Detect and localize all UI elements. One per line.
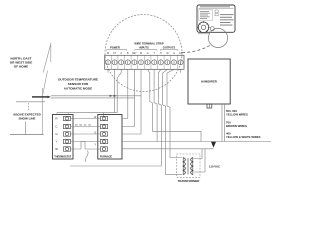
wire thermostat R to furnace R xyxy=(71,118,101,120)
svg-text:Y: Y xyxy=(55,140,57,144)
wire arrow on sensor bus xyxy=(110,95,114,97)
wire arrow on sensor bus 2 xyxy=(114,95,118,97)
wire bundle 4 to transformer bottom lead xyxy=(163,69,182,174)
svg-text:SNOW LINE: SNOW LINE xyxy=(19,116,36,120)
bracket OUTPUTS group xyxy=(160,50,178,51)
wire sensor bus 2 xyxy=(51,97,135,99)
device title text xyxy=(200,6,230,7)
wire terminal W6 to furnace G row xyxy=(122,69,141,134)
svg-text:INPUTS: INPUTS xyxy=(139,45,149,49)
device knob xyxy=(198,22,209,33)
wire sensor riser B xyxy=(117,69,121,112)
svg-text:110 VAC: 110 VAC xyxy=(209,165,220,169)
thermostat terminals xyxy=(64,116,71,151)
svg-text:YELLOW & WHITE WIRES: YELLOW & WHITE WIRES xyxy=(226,135,261,139)
wire sensor riser A xyxy=(114,69,116,112)
wire 400 yellow-white bus xyxy=(122,141,271,143)
wire bundle 2 drop to 400 bus xyxy=(154,69,157,141)
furnace box xyxy=(98,115,122,160)
node label NORTH EAST OR WEST SIDE OF HOME xyxy=(10,57,33,69)
svg-text:BROWN WIRES: BROWN WIRES xyxy=(226,124,247,128)
svg-text:OF HOME: OF HOME xyxy=(14,65,28,69)
terminal screw slots xyxy=(108,61,181,64)
wire furnace W row xyxy=(122,148,170,150)
svg-text:POWER: POWER xyxy=(110,45,120,49)
device title underline xyxy=(199,8,234,10)
device knob label xyxy=(198,32,209,35)
device right text block xyxy=(220,14,234,25)
snow line leader xyxy=(25,122,27,135)
wire terminal B to furnace R row xyxy=(122,69,128,118)
wire thermostat W crossing to furnace Y xyxy=(71,142,101,150)
terminal strip body xyxy=(105,55,184,69)
wire terminal KEY to furnace C row xyxy=(122,69,134,126)
detail source circle on device xyxy=(208,28,227,47)
svg-text:SENSOR FOR: SENSOR FOR xyxy=(68,82,89,86)
terminal screws xyxy=(106,60,184,65)
wire thermostat G to furnace G xyxy=(71,133,101,135)
transformer core xyxy=(186,158,188,174)
device left text block xyxy=(199,10,213,21)
svg-text:G: G xyxy=(173,53,175,55)
wire thermostat bottom hook xyxy=(86,151,89,163)
svg-text:WIRE TERMINAL STRIP: WIRE TERMINAL STRIP xyxy=(134,42,163,46)
furnace terminal letters xyxy=(94,115,96,146)
snow line upper leader xyxy=(28,103,30,111)
device small button xyxy=(210,27,214,31)
thermostat terminal letters xyxy=(55,117,58,152)
wire sensor bus 1 xyxy=(51,95,141,97)
humidifier drain nub xyxy=(207,104,212,108)
node label 700 BROWN WIRES xyxy=(226,121,247,129)
svg-text:THERMOSTAT: THERMOSTAT xyxy=(54,155,71,158)
node label ABOVE EXPECTED SNOW LINE xyxy=(13,112,42,120)
outdoor temperature sensor xyxy=(32,96,48,98)
svg-text:HUMIDIFIER: HUMIDIFIER xyxy=(201,80,217,84)
arrow power feed xyxy=(211,142,216,148)
wire transformer secondary top lead xyxy=(194,149,203,159)
transformer secondary coil xyxy=(191,158,193,175)
control device (automatic humidifier control) xyxy=(197,5,235,32)
terminal wire stubs xyxy=(107,69,109,73)
svg-text:FURNACE: FURNACE xyxy=(100,155,113,158)
node label OUTDOOR TEMPERATURE SENSOR xyxy=(58,78,98,91)
wire side-of-home jagged line xyxy=(43,43,51,135)
bracket INPUTS group xyxy=(135,50,157,51)
wire thermostat C to furnace C xyxy=(71,126,101,128)
dashed leader to detail circle xyxy=(182,45,211,53)
device mode icons xyxy=(215,10,218,12)
node label 400 YELLOW AND WHITE WIRES xyxy=(226,131,261,139)
svg-text:OUTDOOR TEMPERATURE: OUTDOOR TEMPERATURE xyxy=(58,78,98,82)
terminal strip cell dividers xyxy=(111,55,177,69)
wire drop to furnace R terminal xyxy=(103,113,105,117)
snow line lower mark xyxy=(10,134,44,136)
row C wire marks xyxy=(75,124,91,127)
svg-text:TRANSFORMER: TRANSFORMER xyxy=(178,179,200,183)
svg-text:G: G xyxy=(147,53,149,55)
furnace terminals xyxy=(101,116,108,151)
snow line upper mark xyxy=(16,101,45,103)
wire bundle 3 to under-box run xyxy=(70,69,161,166)
wire bundle 5 to transformer top lead xyxy=(167,69,182,157)
svg-text:Y: Y xyxy=(94,142,96,146)
wire 110 VAC bus xyxy=(170,148,214,150)
svg-text:KEY: KEY xyxy=(132,53,137,55)
wire bundle 1 to 400 bus jog xyxy=(148,69,201,141)
svg-text:W: W xyxy=(55,147,58,151)
wire humidifier leads xyxy=(221,104,223,142)
svg-text:OUTPUTS: OUTPUTS xyxy=(163,45,176,49)
wire thermostat Y crossing to furnace W xyxy=(71,142,101,150)
terminal letters row xyxy=(107,52,183,55)
detail circle (wire terminal strip magnified) xyxy=(105,15,182,92)
transformer primary coil xyxy=(183,158,185,175)
svg-text:AUTOMATIC MODE: AUTOMATIC MODE xyxy=(64,87,92,91)
humidifier box xyxy=(188,59,230,104)
transformer dashed enclosure xyxy=(177,154,200,177)
bracket POWER group xyxy=(107,50,127,51)
svg-text:YELLOW WIRES: YELLOW WIRES xyxy=(226,113,248,117)
thermostat box xyxy=(53,115,74,160)
node label 500 600 YELLOW WIRES xyxy=(226,109,248,117)
wire feed line to thermostat top xyxy=(57,112,117,114)
wire transformer secondary bottom lead xyxy=(194,149,206,172)
